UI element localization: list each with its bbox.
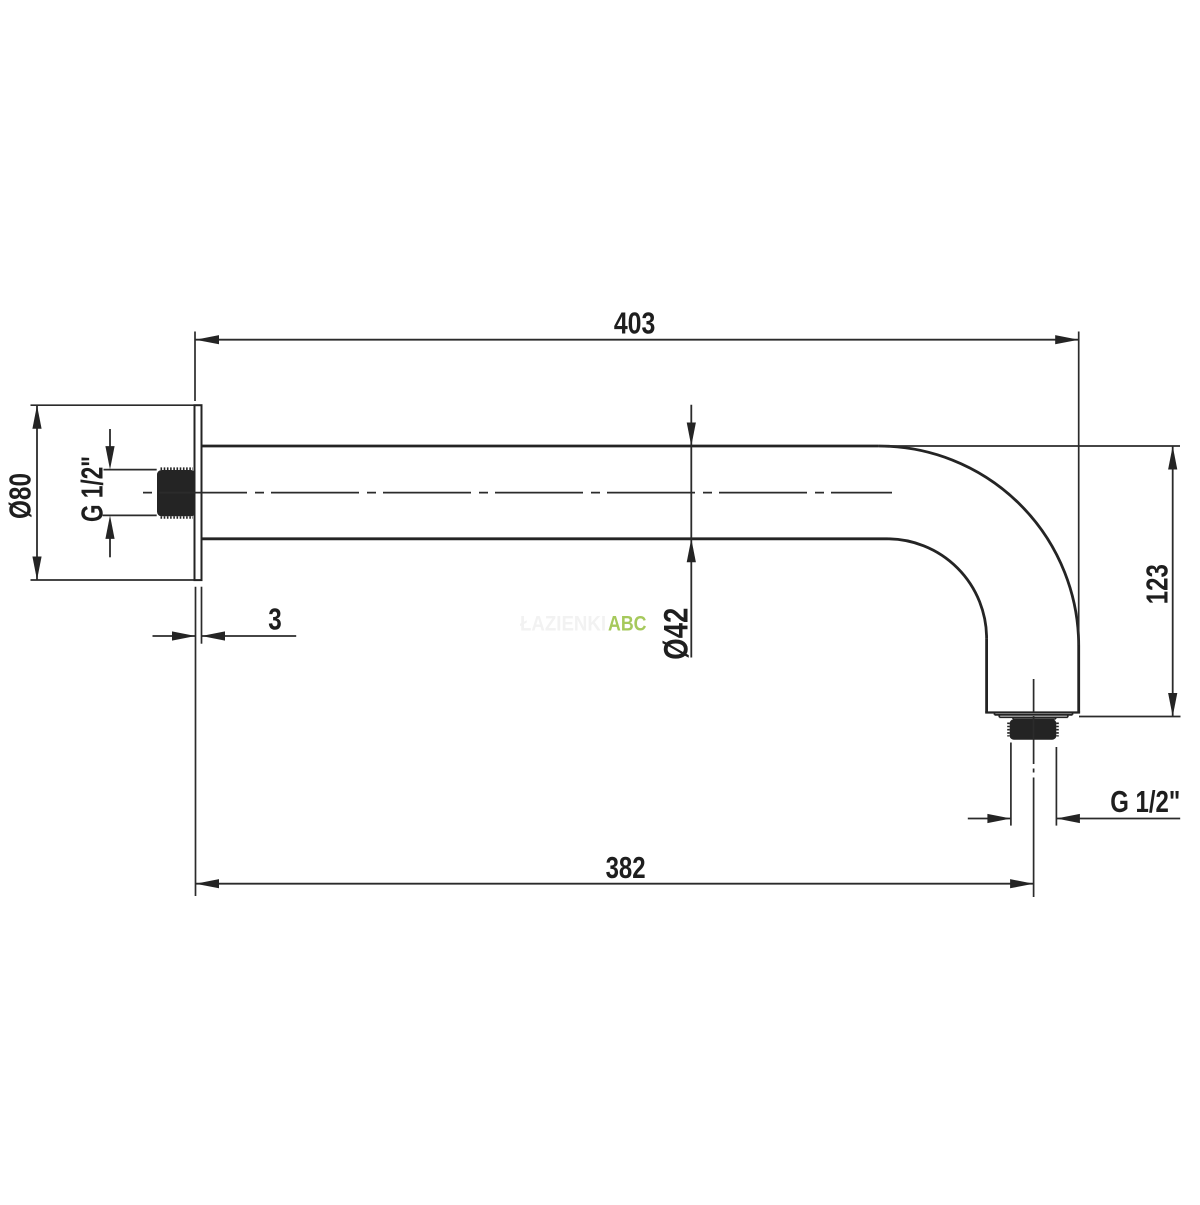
dim G1/2 outlet line left	[968, 818, 1011, 820]
svg-text:ŁAZIENKI: ŁAZIENKI	[520, 613, 606, 636]
outlet thread shoulder	[1013, 717, 1056, 719]
centerline horizontal (tube axis)	[140, 492, 892, 494]
dim 382 arrow right	[1010, 879, 1034, 888]
dim 123 extension top (top edge prolongation)	[879, 445, 1180, 447]
outlet pipe left edge	[985, 638, 988, 712]
svg-text:382: 382	[606, 851, 646, 885]
dim O42 arrow up	[687, 539, 696, 563]
dim O80 extension top	[31, 404, 194, 406]
dim 403 arrow left	[196, 335, 220, 344]
dim O80 line	[36, 405, 38, 580]
dim G1/2 wall extension top	[104, 469, 157, 471]
dim 3 extension left (shared with 382)	[195, 587, 197, 896]
dim O42 line	[690, 405, 692, 658]
outlet thread G1/2 (black block)	[1009, 719, 1058, 739]
dim 403 line	[196, 339, 1079, 341]
svg-text:Ø80: Ø80	[4, 473, 38, 519]
dim G1/2 wall arrow top	[109, 429, 111, 447]
svg-text:123: 123	[1140, 564, 1174, 604]
tube bottom edge	[202, 537, 887, 540]
centerline vertical (outlet axis)	[1033, 679, 1035, 897]
dim 382 arrow left	[196, 879, 220, 888]
dim O80 arrow up	[32, 405, 41, 429]
dim G1/2 outlet extension right	[1055, 747, 1057, 826]
dim 3 line right	[202, 635, 297, 637]
dim 123 extension bottom	[1079, 716, 1181, 718]
dim 403 extension left	[194, 332, 196, 402]
dim G1/2 wall arrow bottom	[109, 538, 111, 557]
svg-text:ABC: ABC	[608, 613, 647, 636]
dim G1/2 outlet extension left	[1010, 743, 1012, 826]
dim 123 line	[1172, 446, 1174, 717]
outlet pipe bottom edge	[985, 711, 1080, 713]
tube bend inner arc	[887, 539, 987, 639]
dim O80 arrow down	[32, 557, 41, 581]
dim O42 arrow down	[687, 423, 696, 447]
dim 403 extension right	[1078, 332, 1080, 646]
dim 403 arrow right	[1055, 335, 1079, 344]
svg-text:G 1/2": G 1/2"	[76, 456, 110, 522]
svg-text:3: 3	[268, 602, 282, 636]
wall flange	[195, 405, 202, 580]
svg-text:Ø42: Ø42	[657, 608, 695, 660]
dim G1/2 wall extension bottom	[103, 514, 157, 516]
wall thread G1/2 (black block)	[157, 469, 196, 518]
outlet collar step 1	[995, 713, 1073, 715]
dim 3 line left	[153, 635, 196, 637]
dim 123 arrow down	[1168, 693, 1177, 717]
svg-text:G 1/2": G 1/2"	[1110, 785, 1180, 819]
outlet pipe right edge	[1077, 646, 1080, 713]
tube bend outer arc	[879, 446, 1079, 646]
dim 3 extension right	[201, 587, 203, 644]
dim G1/2 outlet line right	[1056, 818, 1180, 820]
dim 382 line	[196, 883, 1034, 885]
dim 123 arrow up	[1168, 446, 1177, 470]
tube top edge	[202, 445, 879, 448]
dim O80 extension bottom	[31, 579, 194, 581]
svg-text:403: 403	[614, 306, 656, 340]
outlet collar step 2	[999, 715, 1068, 717]
